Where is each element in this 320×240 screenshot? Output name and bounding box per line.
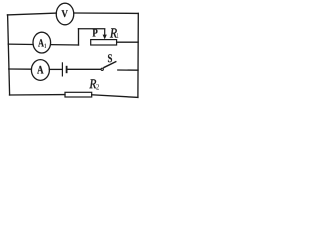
battery long plate [61,62,63,76]
wire: row3 ammeter A to battery [49,68,62,70]
voltmeter V circle [56,3,74,25]
switch pivot circle [101,68,103,70]
ammeter A1 label [38,39,44,46]
wire: bottom border left segment [10,94,66,96]
rheostat label R1 [110,28,117,37]
rheostat R1 body [91,40,117,45]
wire: rheostat slider top horizontal [79,28,105,30]
wire: rheostat right terminal to right border [117,41,139,43]
wire: right border [137,13,139,97]
ammeter A1 circle [33,32,51,53]
wire: switch to right border [118,69,138,71]
wire: riser up to rheostat slider wire [78,29,80,45]
switch blade [103,61,116,67]
wire: row2 from ammeter A1 to riser [51,44,79,46]
resistor label R2 [89,79,96,88]
rheostat slider arrow [104,29,106,36]
ammeter A label [37,66,43,74]
battery short plate [66,66,68,73]
resistor R2 body [65,92,92,97]
wire: top border left segment [7,13,56,15]
wire: battery to switch pivot [67,68,100,70]
switch label S [108,54,112,62]
wire: bottom border right segment [92,95,138,98]
ammeter A circle [31,60,49,81]
wire: left border [8,15,10,95]
wire: row3 from left border to ammeter A [9,68,32,70]
wire: top border right segment [74,12,139,14]
voltmeter V label [62,10,68,17]
wire: row2 from left border to ammeter A1 [8,43,33,45]
rheostat label P [93,29,98,37]
